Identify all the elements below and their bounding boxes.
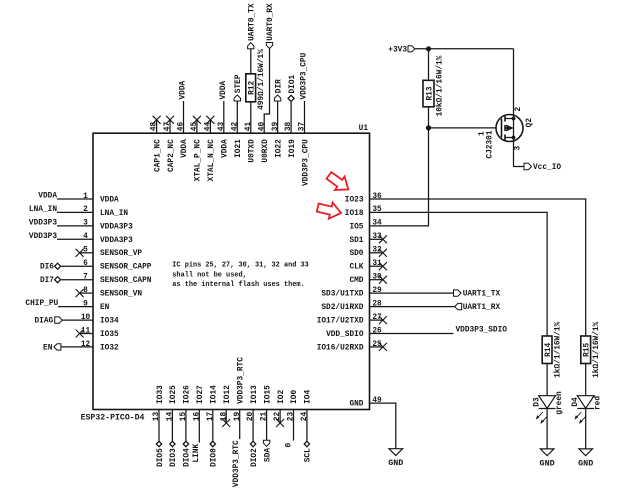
- svg-text:1kΩ/1/16W/1%: 1kΩ/1/16W/1%: [593, 321, 601, 377]
- resistor R14 1k 1/16W 1%: [542, 336, 552, 364]
- svg-text:6: 6: [83, 260, 88, 268]
- svg-text:19: 19: [234, 412, 242, 422]
- svg-text:CAP2_NC: CAP2_NC: [168, 139, 176, 172]
- wire pin 13: [158, 410, 160, 442]
- svg-text:SD1: SD1: [349, 237, 363, 245]
- no-connect pin 11: [80, 333, 93, 335]
- svg-text:18: 18: [220, 412, 228, 422]
- pin 44 XTAL_N_NC (top): [205, 122, 217, 182]
- hierarchical label DIAG: [55, 317, 63, 323]
- pin 31 CLK (right): [349, 260, 382, 272]
- svg-text:IO15: IO15: [264, 385, 272, 404]
- pin 17 IO14 (bottom): [207, 385, 219, 421]
- svg-text:IO32: IO32: [100, 344, 119, 352]
- wire pin 20: [252, 410, 254, 442]
- pin 26 VDD_SDIO (right): [326, 327, 382, 339]
- svg-text:UART0_RX: UART0_RX: [267, 3, 275, 41]
- svg-text:D4: D4: [572, 397, 580, 407]
- svg-text:0: 0: [285, 442, 293, 447]
- pin 27 IO17/U2TXD (right): [317, 314, 382, 326]
- no-connect pin 25: [370, 346, 383, 348]
- wire pin 39: [277, 101, 279, 133]
- wire D4 to ground: [585, 409, 587, 449]
- svg-text:VDD3P3_CPU: VDD3P3_CPU: [302, 139, 310, 186]
- svg-text:XTAL_P_NC: XTAL_P_NC: [195, 139, 203, 181]
- no-connect pin 44: [209, 120, 211, 133]
- pin 45 XTAL_P_NC (top): [191, 122, 203, 182]
- svg-text:48: 48: [151, 122, 159, 132]
- wire pin 29: [370, 292, 454, 294]
- svg-text:IO13: IO13: [251, 385, 259, 404]
- pin 25 IO16/U2RXD (right): [317, 341, 382, 353]
- global label UART1_RX: [455, 303, 462, 309]
- op-amp U1 ESP32-PICO-D4 IC body: [93, 133, 370, 409]
- hierarchical label DIO1: [288, 95, 294, 101]
- svg-text:IO14: IO14: [211, 385, 219, 404]
- svg-text:39: 39: [272, 122, 280, 132]
- pin 41 U0TXD (top): [245, 122, 257, 163]
- pin 14 IO25 (bottom): [167, 385, 179, 421]
- svg-text:LINK: LINK: [193, 443, 201, 462]
- svg-text:DI6: DI6: [40, 264, 54, 272]
- svg-text:GND: GND: [388, 458, 403, 468]
- svg-text:IO4: IO4: [305, 390, 313, 404]
- svg-text:IO34: IO34: [100, 317, 119, 325]
- svg-text:DIO0: DIO0: [211, 448, 219, 467]
- svg-text:IO16/U2RXD: IO16/U2RXD: [317, 344, 364, 352]
- pin 2 LNA_IN (left): [83, 206, 128, 218]
- svg-text:VDDA3P3: VDDA3P3: [100, 223, 133, 231]
- D4 light emission arrows: [575, 412, 586, 424]
- wire R14 to D3: [546, 364, 548, 396]
- pin 5 SENSOR_VP (left): [83, 247, 142, 259]
- pin 37 VDD3P3_CPU (top): [299, 122, 311, 186]
- svg-text:DIO5: DIO5: [157, 448, 165, 467]
- svg-text:GND: GND: [349, 401, 363, 409]
- svg-text:VDDA: VDDA: [38, 192, 57, 200]
- wire pin 26: [370, 333, 454, 335]
- svg-text:SD2/U1RXD: SD2/U1RXD: [321, 304, 363, 312]
- pin 21 IO15 (bottom): [261, 385, 273, 421]
- no-connect pin 27: [370, 319, 383, 321]
- global label UART0_RX: [266, 43, 272, 49]
- pin 18 IO12 (bottom): [220, 385, 232, 421]
- wire pin 2: [57, 211, 93, 213]
- svg-text:DIO1: DIO1: [289, 74, 297, 93]
- svg-text:IO25: IO25: [170, 385, 178, 404]
- svg-text:42: 42: [231, 122, 239, 132]
- svg-text:VDDA: VDDA: [100, 196, 119, 204]
- wire R13 top: [428, 49, 430, 81]
- svg-text:IO18: IO18: [345, 210, 364, 218]
- svg-text:24: 24: [301, 412, 309, 422]
- svg-text:U0RXD: U0RXD: [262, 139, 270, 163]
- svg-text:499Ω/1/16W/1%: 499Ω/1/16W/1%: [258, 49, 266, 110]
- svg-text:VDDA: VDDA: [222, 139, 230, 158]
- pin 39 IO22 (top): [272, 122, 284, 158]
- wire pin 42: [236, 101, 238, 133]
- svg-text:37: 37: [299, 122, 307, 132]
- svg-text:47: 47: [164, 122, 172, 132]
- wire pin 38: [290, 102, 292, 134]
- wire R15 to D4: [585, 364, 587, 396]
- svg-text:44: 44: [205, 122, 213, 132]
- svg-text:IO35: IO35: [100, 331, 119, 339]
- resistor R13 10k 1/16W 1%: [423, 80, 434, 107]
- no-connect pin 47: [169, 120, 171, 133]
- svg-text:IO0: IO0: [291, 390, 299, 404]
- svg-text:IO12: IO12: [224, 385, 232, 404]
- svg-text:R14: R14: [545, 342, 553, 356]
- svg-text:SCL: SCL: [305, 448, 313, 462]
- wire pin 7: [61, 279, 93, 281]
- pin 8 SENSOR_VN (left): [83, 287, 142, 299]
- no-connect pin 22: [279, 410, 281, 424]
- wire pin 24: [306, 410, 308, 442]
- global label STEP: [234, 95, 240, 101]
- svg-text:IO21: IO21: [235, 139, 243, 158]
- svg-text:41: 41: [245, 122, 253, 132]
- svg-text:SD3/U1TXD: SD3/U1TXD: [321, 291, 363, 299]
- svg-text:1kΩ/1/16W/1%: 1kΩ/1/16W/1%: [555, 321, 563, 377]
- no-connect pin 18: [225, 410, 227, 424]
- svg-text:IO2: IO2: [278, 390, 286, 404]
- svg-text:VDD3P3: VDD3P3: [29, 233, 57, 241]
- svg-text:SD0: SD0: [349, 250, 363, 258]
- svg-text:DIAG: DIAG: [34, 317, 53, 325]
- pin 9 EN (left): [83, 300, 110, 312]
- global label UART0_TX: [248, 43, 254, 49]
- svg-text:40: 40: [258, 122, 266, 132]
- no-connect pin 48: [156, 120, 158, 133]
- svg-text:VDD_SDIO: VDD_SDIO: [326, 331, 364, 339]
- svg-text:43: 43: [218, 122, 226, 132]
- svg-text:1: 1: [479, 131, 487, 136]
- wire pin 23: [293, 410, 295, 441]
- wire pin 49 to ground: [370, 403, 396, 449]
- wire pin 4: [57, 238, 93, 240]
- svg-text:DIO4: DIO4: [184, 448, 192, 467]
- svg-text:IO22: IO22: [275, 139, 283, 158]
- svg-text:4: 4: [83, 233, 88, 241]
- wire pin 12: [61, 346, 93, 348]
- hierarchical label DI6: [55, 263, 61, 269]
- wire IO5 (pin 34) to R13/Q2 gate node: [370, 107, 429, 226]
- svg-text:Q2: Q2: [526, 118, 534, 128]
- svg-text:10kΩ/1/16W/1%: 10kΩ/1/16W/1%: [437, 55, 445, 116]
- svg-text:VDD3P3_SDIO: VDD3P3_SDIO: [456, 327, 508, 335]
- red annotation arrow 1 (IO23): [327, 172, 349, 190]
- wire +3V3 rail: [415, 48, 514, 50]
- junction +3V3/R13: [426, 46, 431, 51]
- wire IO18 to R14: [546, 335, 548, 337]
- svg-text:17: 17: [207, 412, 215, 422]
- pin 24 IO4 (bottom): [301, 390, 313, 422]
- svg-text:IC pins 25, 27, 30, 31, 32 and: IC pins 25, 27, 30, 31, 32 and 33: [172, 262, 308, 270]
- svg-text:IO19: IO19: [289, 139, 297, 158]
- svg-text:12: 12: [81, 341, 91, 349]
- red annotation arrow 2 (IO18): [317, 203, 341, 219]
- svg-text:IO17/U2TXD: IO17/U2TXD: [317, 317, 364, 325]
- wire pin 17: [212, 410, 214, 442]
- pin 13 IO33 (bottom): [153, 385, 165, 421]
- no-connect pin 30: [370, 279, 383, 281]
- global label UART1_TX: [454, 290, 462, 296]
- ground symbol (pin 49): [389, 449, 403, 456]
- svg-text:green: green: [556, 391, 564, 415]
- pin 4 VDDA3P3 (left): [83, 233, 133, 245]
- wire pin 21: [266, 410, 268, 442]
- pin 16 IO27 (bottom): [193, 385, 205, 421]
- svg-text:IO33: IO33: [157, 385, 165, 404]
- no-connect pin 33: [370, 238, 383, 240]
- svg-text:ESP32-PICO-D4: ESP32-PICO-D4: [81, 414, 145, 423]
- wire IO23 (pin 36) to R15 branch: [370, 199, 586, 336]
- svg-text:DIO2: DIO2: [251, 448, 259, 467]
- svg-text:23: 23: [288, 412, 296, 422]
- LED D4 red: [577, 396, 594, 409]
- svg-text:VDD3P3_RTC: VDD3P3_RTC: [233, 440, 241, 487]
- svg-text:DIR: DIR: [275, 79, 283, 93]
- svg-text:38: 38: [285, 122, 293, 132]
- svg-text:VDDA: VDDA: [180, 80, 188, 99]
- wire Q2 source to Vcc_IO: [514, 138, 525, 167]
- wire pin 15: [185, 410, 187, 442]
- pin 19 VDD3P3_RTC (bottom): [234, 357, 246, 421]
- svg-text:VDD3P3_RTC: VDD3P3_RTC: [237, 357, 245, 404]
- pin 38 IO19 (top): [285, 122, 297, 158]
- svg-text:UART0_TX: UART0_TX: [249, 3, 257, 41]
- svg-text:R12: R12: [249, 80, 257, 94]
- svg-text:IO27: IO27: [197, 385, 205, 404]
- pin 43 VDDA (top): [218, 122, 230, 158]
- svg-text:IO26: IO26: [184, 385, 192, 404]
- pin 33 SD1 (right): [349, 233, 382, 245]
- wire D3 to ground: [546, 409, 548, 449]
- hierarchical label SCL: [304, 441, 309, 446]
- svg-text:SENSOR_VN: SENSOR_VN: [100, 291, 142, 299]
- wire pin 40 to UART0_RX: [264, 49, 269, 134]
- svg-text:IO5: IO5: [349, 223, 363, 231]
- wire pin 16: [198, 410, 200, 443]
- wire pin 43: [223, 101, 225, 133]
- svg-text:UART1_RX: UART1_RX: [463, 304, 501, 312]
- svg-text:LNA_IN: LNA_IN: [29, 206, 57, 214]
- svg-text:EN: EN: [43, 344, 53, 352]
- svg-text:CMD: CMD: [349, 277, 363, 285]
- wire pin 37: [304, 101, 306, 133]
- pin 3 VDDA3P3 (left): [83, 220, 133, 232]
- D3 light emission arrows: [536, 412, 547, 424]
- wire IO18 (pin 35) to R14 branch: [370, 212, 548, 336]
- global label DIR: [274, 95, 280, 101]
- svg-text:VDDA: VDDA: [220, 80, 228, 99]
- pin 23 IO0 (bottom): [288, 390, 300, 422]
- svg-text:VDDA: VDDA: [181, 139, 189, 158]
- svg-text:U1: U1: [359, 125, 369, 133]
- svg-text:13: 13: [153, 412, 161, 422]
- pin 22 IO2 (bottom): [274, 390, 286, 422]
- pin 11 IO35 (left): [81, 327, 119, 339]
- pin 15 IO26 (bottom): [180, 385, 192, 421]
- wire Q2 drain to +3V3: [513, 49, 515, 119]
- hierarchical label SDA: [263, 440, 269, 446]
- svg-text:16: 16: [193, 412, 201, 422]
- ground symbol (D4): [579, 449, 593, 456]
- pin 46 VDDA (top): [178, 122, 190, 158]
- pin 1 VDDA (left): [83, 193, 119, 205]
- wire R12 to UART0_TX: [250, 49, 252, 74]
- svg-text:3: 3: [515, 146, 523, 151]
- global label Vcc_IO: [524, 163, 532, 169]
- hierarchical label DIO3: [170, 441, 175, 446]
- svg-text:SDA: SDA: [264, 448, 272, 462]
- svg-text:SENSOR_CAPP: SENSOR_CAPP: [100, 264, 152, 272]
- pin 20 IO13 (bottom): [247, 385, 259, 421]
- note text: [172, 262, 308, 289]
- svg-text:20: 20: [247, 412, 255, 422]
- hierarchical label DI7: [55, 277, 61, 283]
- svg-text:shall not be used,: shall not be used,: [172, 271, 246, 279]
- no-connect pin 8: [80, 292, 93, 294]
- pin 12 IO32 (left): [81, 341, 119, 353]
- ground symbol (D3): [540, 449, 554, 456]
- svg-text:SENSOR_VP: SENSOR_VP: [100, 250, 142, 258]
- svg-text:R15: R15: [584, 342, 592, 356]
- svg-text:15: 15: [180, 412, 188, 422]
- svg-text:EN: EN: [100, 304, 110, 312]
- svg-text:2: 2: [515, 107, 523, 112]
- resistor R15 1k 1/16W 1%: [581, 336, 591, 364]
- svg-text:red: red: [595, 396, 603, 410]
- wire pin 41 to R12: [250, 102, 252, 133]
- pin 48 CAP1_NC (top): [151, 122, 163, 172]
- svg-text:+3V3: +3V3: [388, 46, 407, 54]
- svg-text:IO23: IO23: [345, 196, 364, 204]
- svg-text:CJ2301: CJ2301: [487, 130, 495, 158]
- wire pin 1: [57, 198, 93, 200]
- svg-text:R13: R13: [426, 86, 434, 100]
- no-connect pin 31: [370, 265, 383, 267]
- svg-text:XTAL_N_NC: XTAL_N_NC: [208, 139, 216, 181]
- svg-text:22: 22: [274, 412, 282, 422]
- pin 10 IO34 (left): [81, 314, 119, 326]
- pin 49 GND: [349, 397, 382, 409]
- svg-text:SENSOR_CAPN: SENSOR_CAPN: [100, 277, 152, 285]
- hierarchical label DIO2: [250, 441, 255, 446]
- pin 32 SD0 (right): [349, 247, 382, 259]
- wire Q2 gate: [429, 127, 502, 129]
- svg-text:Vcc_IO: Vcc_IO: [533, 164, 561, 172]
- pin 30 CMD (right): [349, 274, 382, 286]
- wire pin 14: [171, 410, 173, 442]
- svg-text:CLK: CLK: [349, 264, 363, 272]
- pin 36 IO23 (right): [345, 193, 382, 205]
- pin 35 IO18 (right): [345, 206, 382, 218]
- hierarchical label EN: [54, 344, 61, 350]
- svg-text:VDDA3P3: VDDA3P3: [100, 237, 133, 245]
- pin 42 IO21 (top): [231, 122, 243, 158]
- pin 34 IO5 (right): [349, 220, 382, 232]
- svg-text:46: 46: [178, 122, 186, 132]
- svg-text:GND: GND: [578, 458, 593, 468]
- svg-text:CHIP_PU: CHIP_PU: [25, 300, 58, 308]
- hierarchical label DIO0: [210, 441, 215, 446]
- svg-text:45: 45: [191, 122, 199, 132]
- pin 6 SENSOR_CAPP (left): [83, 260, 152, 272]
- wire pin 19: [239, 410, 241, 440]
- svg-text:21: 21: [261, 412, 269, 422]
- wire pin 9: [58, 306, 93, 308]
- hierarchical label DIO5: [156, 441, 161, 446]
- pin 28 SD2/U1RXD (right): [321, 300, 382, 312]
- svg-text:DIO3: DIO3: [170, 448, 178, 467]
- pin 47 CAP2_NC (top): [164, 122, 176, 172]
- wire pin 3: [57, 225, 93, 227]
- svg-text:U0TXD: U0TXD: [249, 139, 257, 163]
- transistor Q2 internals: [502, 116, 516, 141]
- svg-text:D3: D3: [533, 397, 541, 407]
- svg-text:CAP1_NC: CAP1_NC: [154, 139, 162, 172]
- svg-text:STEP: STEP: [235, 74, 243, 93]
- transistor Q2 CJ2301 body: [496, 115, 523, 142]
- wire pin 10: [62, 319, 94, 321]
- LED D3 green: [539, 396, 556, 409]
- svg-text:GND: GND: [540, 458, 555, 468]
- no-connect pin 45: [196, 120, 198, 133]
- svg-text:DI7: DI7: [40, 277, 54, 285]
- svg-text:14: 14: [167, 412, 175, 422]
- svg-text:as the internal flash uses the: as the internal flash uses them.: [172, 281, 304, 289]
- svg-text:UART1_TX: UART1_TX: [463, 291, 501, 299]
- svg-text:VDD3P3_CPU: VDD3P3_CPU: [301, 52, 309, 99]
- pin 29 SD3/U1TXD (right): [321, 287, 382, 299]
- no-connect pin 32: [370, 252, 383, 254]
- wire pin 28: [370, 306, 455, 308]
- pin 7 SENSOR_CAPN (left): [83, 274, 152, 286]
- no-connect pin 5: [80, 252, 93, 254]
- wire pin 6: [61, 265, 93, 267]
- svg-text:VDD3P3: VDD3P3: [29, 219, 57, 227]
- svg-text:LNA_IN: LNA_IN: [100, 210, 128, 218]
- resistor R12 499R 1/16W 1%: [246, 74, 256, 102]
- junction R13/Q2 gate/IO5 node: [426, 125, 431, 130]
- hierarchical label DIO4: [183, 441, 188, 446]
- pin 40 U0RXD (top): [258, 122, 270, 163]
- wire pin 46: [183, 101, 185, 133]
